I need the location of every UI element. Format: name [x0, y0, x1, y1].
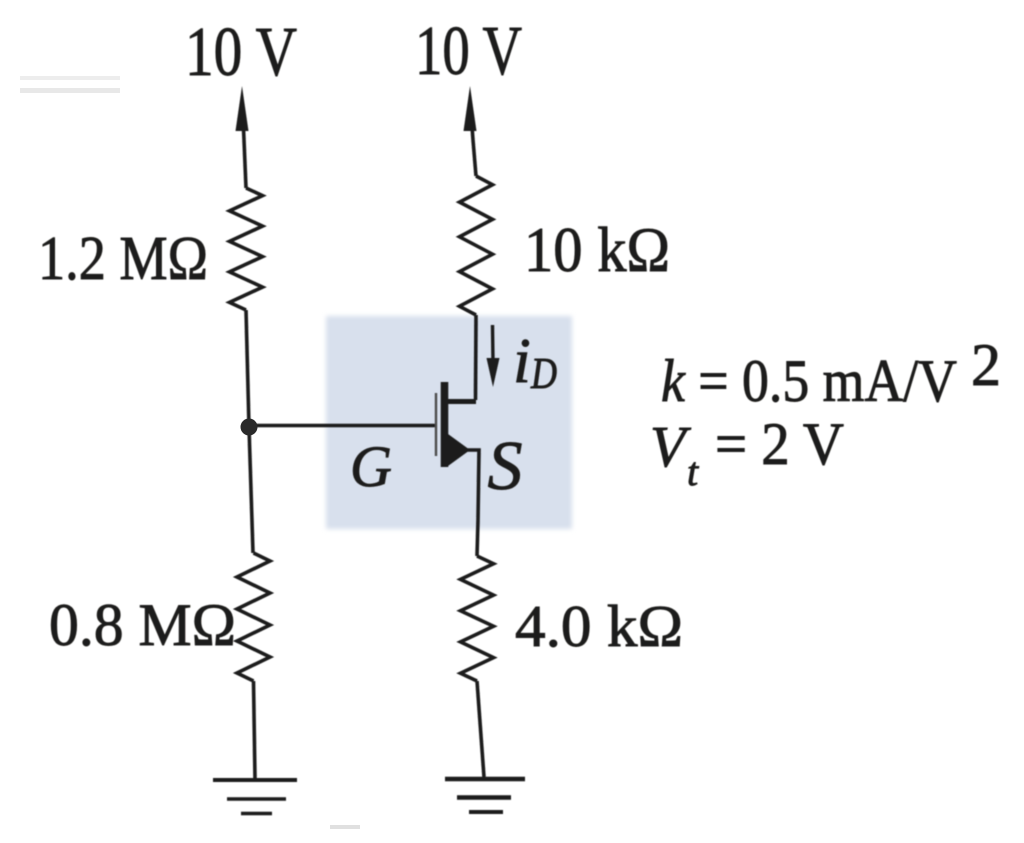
svg-text:10 kΩ: 10 kΩ	[524, 214, 670, 285]
svg-text:10 V: 10 V	[185, 14, 297, 91]
svg-text:0.8 MΩ: 0.8 MΩ	[49, 592, 236, 658]
svg-text:4.0 kΩ: 4.0 kΩ	[515, 593, 683, 659]
svg-text:D: D	[530, 349, 557, 398]
svg-text:k = 0.5 mA/V: k = 0.5 mA/V	[661, 348, 957, 414]
svg-text:S: S	[488, 428, 523, 505]
svg-text:i: i	[513, 325, 531, 396]
svg-text:= 2 V: = 2 V	[715, 411, 844, 477]
svg-text:1.2 MΩ: 1.2 MΩ	[38, 225, 208, 293]
svg-text:G: G	[350, 434, 392, 499]
svg-text:2: 2	[971, 332, 1001, 398]
svg-text:t: t	[687, 449, 699, 494]
svg-text:10 V: 10 V	[415, 13, 522, 90]
